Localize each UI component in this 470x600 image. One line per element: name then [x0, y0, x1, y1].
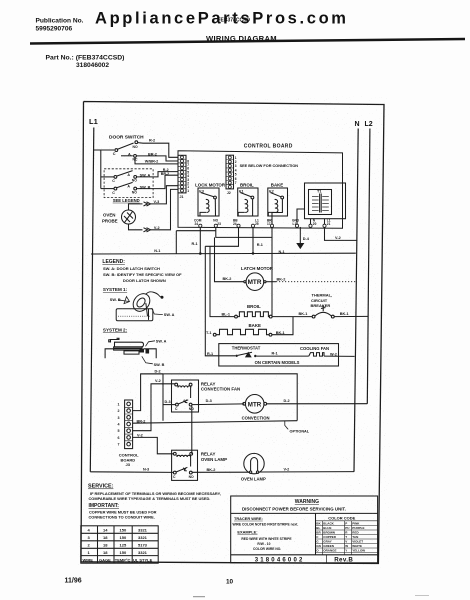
- door switch pole2 A contact lead: [121, 155, 133, 157]
- oven probe thermistor symbol: [125, 212, 133, 223]
- relay K2 BAKE: [268, 188, 288, 224]
- connector J2 body: [226, 155, 234, 189]
- lamp relay arm: [176, 467, 187, 472]
- wire thermostat to cooling fan: [257, 355, 309, 357]
- system1 base dotted line: [118, 315, 151, 317]
- bake element left terminal: [213, 333, 216, 336]
- switch SW.A NO contact: [134, 176, 137, 179]
- wire N-3 from L1 bus to relay C: [90, 471, 173, 474]
- label OPTIONAL with hook: [285, 421, 288, 430]
- junction dot N-1/COM24: [199, 252, 202, 255]
- relay K1 coil: [245, 199, 248, 212]
- switch SW.B NO contact: [134, 187, 137, 190]
- lamp relay armature link: [190, 457, 192, 467]
- terminal COM 24: [199, 224, 202, 227]
- wire J3 pin6 V-2 to oven lamp relay: [133, 437, 174, 453]
- svg-text:Publication No.: Publication No.: [36, 18, 84, 25]
- connector J3 body: [125, 400, 133, 449]
- wire D-3 into relay C: [163, 404, 176, 406]
- oven lamp filament loop: [251, 458, 258, 462]
- wire latch motor to N bus (dotted): [266, 281, 276, 283]
- cooling fan element squiggle: [309, 353, 324, 357]
- wire BR-2 from pole2 to J1: [136, 156, 178, 161]
- conv fan motor circle: [245, 395, 264, 414]
- door switch pole1 arm: [118, 143, 134, 149]
- wire lamp relay NO to oven lamp: [192, 471, 249, 473]
- warning outer box: [231, 496, 378, 563]
- wire T1 secondary N-20 stub: [310, 219, 312, 225]
- svg-text:Part No.: (FEB374CCSD): Part No.: (FEB374CCSD): [46, 55, 125, 62]
- wire D-2 conv MTR to L2 bus: [267, 403, 368, 405]
- conv motor right terminal: [264, 402, 267, 405]
- wire thermostat internal left: [219, 355, 236, 357]
- system1 base plate: [116, 309, 153, 321]
- scan grain overlay: [78, 96, 390, 568]
- system2 lower plate: [124, 351, 139, 354]
- wire N-1 long horizontal: [91, 252, 356, 255]
- relay K1 coil stub to COM: [238, 212, 245, 216]
- conv relay arrow A: [185, 400, 188, 403]
- wire conv relay NO down to oven lamp relay coil: [191, 406, 193, 454]
- broil element left terminal: [235, 315, 238, 318]
- wire bake right up to broil wire: [272, 317, 293, 335]
- terminal BR 17: [270, 224, 273, 227]
- lamp relay arrow A: [184, 468, 187, 471]
- relay K3 contact arm: [201, 193, 214, 197]
- oven lamp relay box: [172, 450, 198, 480]
- wire L1-25 down to N-1 bus: [252, 227, 254, 253]
- terminal N 20: [309, 224, 312, 227]
- door switch SW pole1: common contact: [115, 149, 118, 152]
- wire J3 pin4 BR-2 long wire: [133, 421, 298, 424]
- oven probe circle: [122, 210, 136, 224]
- wire L1 bus: [90, 128, 94, 472]
- door switch pole2 contact circle: [134, 155, 137, 158]
- relay K2 contact drop to NO: [272, 199, 282, 224]
- bake element right terminal: [269, 333, 272, 336]
- breaker right terminal: [331, 315, 334, 318]
- wire COM24 down to N-1 bus: [199, 227, 201, 253]
- wire oven lamp to N bus: [259, 471, 354, 473]
- thermostat triangle: [246, 353, 251, 357]
- warning divider horizontal: [231, 512, 378, 514]
- wire T1 secondary L1-21 stub: [324, 219, 326, 225]
- wire to SW.B common: [101, 188, 114, 190]
- wire cooling fan to N bus: [324, 355, 355, 357]
- wire probe top to V-3: [129, 204, 143, 210]
- transformer T1 inner box: [309, 190, 332, 215]
- transformer T1 primary winding bars: [312, 196, 319, 198]
- relay K2 box: [268, 188, 288, 216]
- wire table grid: [81, 526, 158, 563]
- relay K3 coil: [206, 199, 209, 212]
- switch SW.A common contact: [114, 176, 117, 179]
- conv relay coil bumps: [178, 386, 191, 388]
- relay K1 contact arm: [240, 193, 251, 197]
- relay K3 LOCK MOTOR: [198, 188, 219, 216]
- system1 SW.A leader: [152, 308, 163, 315]
- conv relay armature link: [190, 388, 192, 399]
- svg-text:10: 10: [226, 579, 234, 586]
- conv relay switch C contact: [176, 403, 179, 406]
- broil element right terminal: [269, 315, 272, 318]
- chevron V-2: [144, 228, 148, 232]
- wire V-2 to conv relay coil: [133, 384, 175, 431]
- relay K1 contact drop to NO: [252, 199, 254, 216]
- ground symbol arrow: [297, 244, 303, 249]
- wire W/BR-2 to J1: [135, 157, 178, 164]
- oven lamp filament prongs: [250, 462, 252, 472]
- switch SW.B arm: [117, 182, 133, 187]
- thermostat box: [219, 344, 339, 366]
- transformer T1 core lines: [319, 194, 321, 213]
- system2 top tab: [109, 338, 119, 342]
- svg-text:FEB374CCSD: FEB374CCSD: [218, 18, 251, 24]
- wire J3 pin2 up and over D-2: [133, 374, 163, 411]
- transformer T1 secondary winding bars: [322, 196, 329, 198]
- wire R-2 from door switch NO to J1 pin: [138, 143, 178, 158]
- wire latch motor feed vertical: [215, 237, 244, 281]
- transformer T1 ground stub to GND terminal: [297, 209, 305, 224]
- lamp relay NO contact: [189, 471, 192, 474]
- lamp relay coil bumps: [177, 455, 191, 457]
- door switch pole1 NO contact: [135, 141, 138, 144]
- bake element squiggle: [216, 329, 269, 334]
- wire probe bottom to V-2: [129, 224, 143, 230]
- connector J2 pin circles: [228, 156, 231, 159]
- relay K2 coil stub to COM: [268, 212, 275, 216]
- warning id band line: [231, 554, 378, 556]
- system1 squiggle wire: [146, 292, 163, 297]
- wire L1-21 to N bus V-2: [325, 227, 358, 240]
- optional hook line: [285, 421, 288, 430]
- relay K3 contact drop to NO: [214, 199, 216, 216]
- warning divider vertical: [315, 513, 317, 554]
- system2 SW.A leader: [146, 341, 156, 347]
- terminal GND L1: [295, 224, 298, 227]
- wire BB24 down-left jog: [205, 227, 238, 246]
- system2 SW.B leader: [142, 356, 153, 364]
- control board box: [178, 151, 343, 229]
- relay K1 BROIL: [238, 188, 258, 216]
- lamp relay coil terminals: [173, 452, 176, 455]
- transformer T1 outer box: [305, 183, 346, 219]
- wire relay NO to conv MTR: [192, 403, 244, 406]
- connector J1 body: [178, 155, 186, 193]
- relay K1 box: [238, 188, 258, 216]
- transformer T1: [297, 183, 346, 224]
- wire BR17 down to broil right: [271, 237, 273, 316]
- latch switch dashed box: [104, 169, 153, 198]
- color code table grid: [316, 521, 378, 555]
- wire to SW.A common: [101, 176, 114, 178]
- svg-text:318046002: 318046002: [76, 62, 109, 69]
- thermostat arm: [238, 352, 252, 355]
- oven lamp terminal circles: [249, 471, 251, 473]
- latch motor circle: [246, 273, 264, 291]
- system1 cam ring: [130, 290, 154, 314]
- connector J3 pin circles: [127, 402, 131, 406]
- header rule (thick line): [30, 38, 465, 45]
- relay K convection fan box: [172, 380, 199, 412]
- relay K2 contact arm: [270, 193, 281, 197]
- junction dot N-1/L1-25: [252, 252, 255, 255]
- lamp relay C contact: [173, 471, 176, 474]
- wire V-3 to J1 pin2: [151, 186, 178, 204]
- wire ground GND drop: [299, 227, 301, 244]
- conv relay switch NO contact: [189, 403, 192, 406]
- system2 lower bar hatched: [114, 347, 143, 350]
- conv relay switch arm: [178, 400, 188, 404]
- frame border: [81, 102, 384, 564]
- oven lamp bulb circle: [244, 453, 264, 473]
- latch motor right terminal: [264, 281, 266, 283]
- relay K2 coil: [275, 199, 278, 212]
- wire BR-2 from SW.B to J1: [137, 175, 178, 188]
- terminal BB 24: [237, 224, 240, 227]
- broil element squiggle: [237, 312, 269, 317]
- system1 inner vertical: [148, 309, 150, 320]
- wire breaker to L2 bus: [334, 315, 368, 317]
- breaker top tick: [322, 306, 324, 312]
- conv relay coil terminals: [175, 383, 178, 386]
- wire stub oven-probe return to NO23 jog: [176, 230, 216, 232]
- system2 mount bracket: [105, 349, 156, 358]
- wire V-2 to J1 pin1: [151, 189, 178, 229]
- breaker arc: [315, 312, 331, 316]
- wire bake feed vertical: [205, 246, 219, 355]
- system2 switch blobs: [140, 349, 145, 353]
- wire NO23 jog to BR17: [216, 227, 272, 237]
- wire R-2 from SW.A to J1: [137, 172, 178, 177]
- wire broil right to breaker: [272, 316, 312, 318]
- system2 upper bar: [115, 342, 144, 347]
- wire L2 bus: [367, 129, 370, 404]
- wire L1 to door switch common: [94, 149, 114, 151]
- relay K3 box: [198, 188, 219, 216]
- terminal NO 23: [214, 224, 217, 227]
- wire common feed down to latch switches: [100, 150, 102, 189]
- connector J1 pin circles: [181, 156, 184, 159]
- terminal L1 21: [323, 224, 326, 227]
- terminal L1 25: [251, 224, 254, 227]
- convection section box: [141, 374, 298, 421]
- breaker left terminal: [312, 315, 315, 318]
- footer stray mark: [193, 596, 205, 597]
- chevron V-3: [144, 202, 148, 206]
- svg-text:5995290706: 5995290706: [36, 26, 73, 33]
- switch SW.A arm: [117, 171, 133, 177]
- relay K3 coil stub to COM: [200, 212, 206, 216]
- thermostat contact dots: [236, 355, 238, 357]
- conv motor left terminal: [243, 402, 246, 405]
- latch motor left terminal: [244, 281, 246, 283]
- wire broil feed vertical: [210, 246, 235, 316]
- wire N bus: [354, 129, 358, 472]
- switch SW.B common contact: [114, 187, 117, 190]
- system1 SW.B leader arrow: [118, 297, 130, 304]
- svg-text:11/96: 11/96: [65, 578, 82, 585]
